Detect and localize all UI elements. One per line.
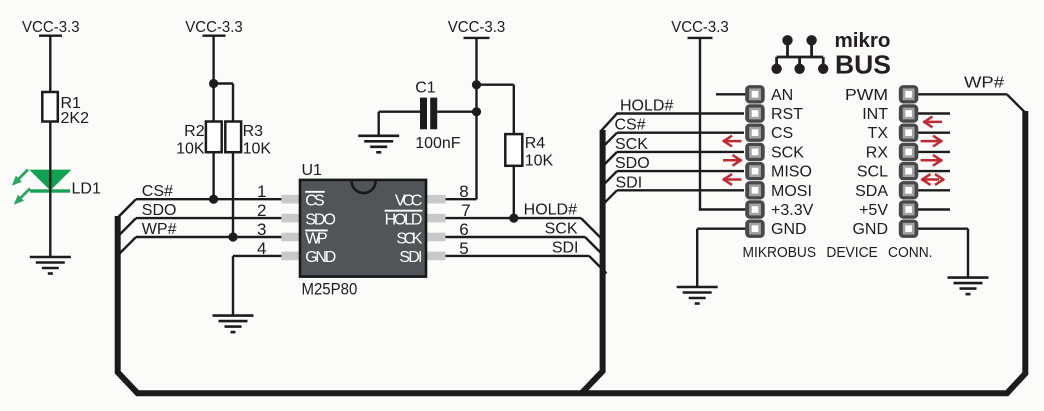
svg-text:10K: 10K (176, 141, 205, 158)
svg-text:RST: RST (771, 106, 803, 123)
svg-text:CS: CS (305, 193, 325, 210)
svg-text:BUS: BUS (835, 50, 891, 80)
svg-text:SDO: SDO (615, 155, 650, 172)
svg-text:VCC-3.3: VCC-3.3 (671, 19, 729, 36)
svg-text:8: 8 (459, 182, 468, 201)
svg-text:WP: WP (305, 230, 328, 247)
svg-text:3: 3 (257, 220, 266, 239)
svg-text:PWM: PWM (845, 87, 888, 104)
svg-text:WP#: WP# (964, 75, 1004, 92)
svg-text:SCK: SCK (396, 230, 422, 247)
svg-text:VCC-3.3: VCC-3.3 (22, 19, 80, 36)
svg-text:WP#: WP# (142, 221, 177, 238)
svg-text:2: 2 (257, 201, 266, 220)
svg-text:M25P80: M25P80 (302, 280, 358, 299)
svg-text:INT: INT (862, 106, 888, 123)
svg-text:MIKROBUS DEVICE CONN.: MIKROBUS DEVICE CONN. (743, 244, 933, 261)
svg-text:GND: GND (305, 249, 336, 266)
svg-text:SCK: SCK (545, 220, 578, 237)
svg-text:SDI: SDI (399, 249, 422, 266)
svg-text:4: 4 (257, 239, 266, 258)
svg-text:5: 5 (459, 239, 468, 258)
svg-text:GND: GND (852, 221, 888, 238)
svg-text:VCC: VCC (395, 193, 423, 210)
svg-text:SDO: SDO (142, 202, 177, 219)
svg-text:2K2: 2K2 (61, 110, 90, 127)
svg-text:1: 1 (257, 182, 266, 201)
svg-text:SCK: SCK (615, 136, 648, 153)
svg-text:10K: 10K (243, 141, 272, 158)
svg-text:HOLD#: HOLD# (524, 202, 577, 219)
svg-text:VCC-3.3: VCC-3.3 (185, 19, 243, 36)
svg-text:VCC-3.3: VCC-3.3 (448, 19, 506, 36)
svg-text:U1: U1 (302, 162, 323, 179)
svg-text:SDI: SDI (616, 174, 643, 191)
svg-text:CS#: CS# (142, 183, 173, 200)
svg-text:10K: 10K (525, 153, 554, 170)
svg-text:SCK: SCK (771, 144, 804, 161)
svg-text:MISO: MISO (771, 164, 812, 181)
svg-text:HOLD#: HOLD# (620, 98, 673, 115)
svg-text:TX: TX (868, 125, 889, 142)
svg-text:R2: R2 (184, 123, 205, 140)
svg-text:CS: CS (771, 125, 793, 142)
svg-text:6: 6 (459, 220, 468, 239)
svg-text:SCL: SCL (857, 164, 888, 181)
svg-text:SDA: SDA (855, 183, 888, 200)
svg-text:CS#: CS# (615, 117, 646, 134)
svg-text:SDI: SDI (552, 239, 579, 256)
svg-text:C1: C1 (415, 80, 436, 97)
svg-text:+5V: +5V (859, 202, 888, 219)
svg-text:AN: AN (771, 87, 793, 104)
svg-text:RX: RX (866, 144, 889, 161)
svg-text:R4: R4 (525, 135, 546, 152)
svg-text:7: 7 (461, 201, 470, 220)
svg-text:GND: GND (771, 221, 807, 238)
svg-text:100nF: 100nF (415, 135, 461, 152)
svg-text:SDO: SDO (305, 211, 336, 228)
svg-text:R3: R3 (243, 123, 264, 140)
svg-text:+3.3V: +3.3V (771, 202, 814, 219)
svg-text:MOSI: MOSI (771, 183, 812, 200)
svg-text:HOLD: HOLD (385, 211, 423, 228)
svg-text:LD1: LD1 (72, 181, 101, 198)
